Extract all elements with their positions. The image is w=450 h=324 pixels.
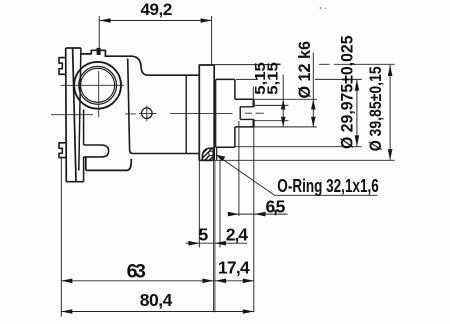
svg-text:63: 63 — [127, 261, 146, 283]
ext 49,2 left / port centerline upper — [98, 16, 100, 52]
dim line 63 and 17,4 — [61, 280, 254, 282]
ext left flange (63 / 80,4) — [60, 158, 62, 317]
svg-text:O-Ring 32,1x1,6: O-Ring 32,1x1,6 — [277, 176, 379, 196]
ext cover left face down — [198, 160, 200, 247]
dim line dia 39,85 — [389, 65, 391, 160]
bottom port stub (clip) — [59, 143, 66, 158]
port vertical crosshair — [98, 71, 100, 117]
body left face edge — [83, 110, 85, 182]
bearing hub — [216, 79, 235, 147]
top port stub (clip) — [59, 58, 66, 75]
casting slot (left cavity) — [84, 145, 109, 157]
end cover disc — [199, 65, 214, 160]
svg-text:5,15: 5,15 — [265, 62, 282, 95]
shaft — [235, 99, 254, 127]
dim line dia 29,975 — [356, 80, 358, 147]
svg-text:6,5: 6,5 — [266, 196, 286, 216]
arrows 63 — [61, 279, 72, 284]
svg-text:Ø 29,975±0,025: Ø 29,975±0,025 — [338, 36, 356, 150]
cam screw tab and body top profile — [81, 50, 199, 75]
ext keyway left end down (6,5) — [238, 121, 240, 216]
arrows 49,2 — [100, 18, 111, 23]
centerlines — [51, 71, 264, 121]
hub joint line — [215, 79, 217, 147]
dim line 49,2 — [100, 20, 212, 22]
dim line 80,4 — [61, 311, 254, 313]
arrows dia 12 — [311, 100, 316, 110]
svg-text:5: 5 — [199, 224, 209, 244]
ext shaft top (dia 12) — [254, 98, 317, 100]
cam screw slot (filled) — [97, 48, 101, 55]
body bottom edge — [86, 157, 132, 171]
main axis centerline — [51, 113, 264, 115]
arrows 80,4 — [61, 309, 72, 314]
body/cover joint line — [185, 75, 187, 154]
dim line dia 12 — [312, 53, 314, 128]
shaft keyway slot — [240, 107, 253, 120]
port circle middle ring — [79, 66, 117, 104]
ext cover right face down (pair) — [214, 160, 215, 312]
shaft end face — [253, 99, 255, 127]
ext cover bottom (dia 39,85) — [214, 159, 394, 161]
ext keyway bottom — [254, 120, 289, 122]
port circle inner ring — [81, 68, 115, 102]
port circle outer ring — [74, 62, 121, 109]
ext hub bottom (dia 29,975) — [235, 146, 362, 148]
arrows 17,4 — [215, 279, 226, 284]
dimension lines — [61, 21, 390, 312]
dim line 5 and 2,4 — [186, 242, 248, 244]
svg-text:17,4: 17,4 — [218, 258, 250, 278]
ext hub top (dia 29,975) — [236, 78, 362, 80]
leader line o-ring — [216, 155, 378, 196]
ext o-ring groove down — [219, 160, 221, 247]
arrows 5,15 dim — [281, 100, 286, 110]
arrow o-ring leader — [216, 155, 226, 162]
arrows 5 / 2,4 — [188, 241, 199, 246]
extension lines — [61, 16, 394, 317]
ext cover top (dia 39,85) — [214, 63, 394, 66]
o-ring groove edge — [216, 147, 218, 160]
O-ring section hatch wedge — [194, 144, 227, 170]
dim line 6,5 — [228, 213, 288, 215]
small hole circle — [142, 108, 153, 119]
svg-text:80,4: 80,4 — [140, 290, 173, 310]
ext 49,2 right — [211, 16, 213, 65]
arrowheads — [61, 18, 392, 314]
small hole vertical crosshair — [146, 106, 148, 122]
svg-text:49,2: 49,2 — [141, 0, 173, 19]
port horizontal crosshair — [61, 84, 124, 86]
dimension texts — [127, 0, 386, 310]
arrows 6,5 (outside) — [228, 212, 239, 217]
ext shaft end down — [253, 127, 255, 312]
arrows dia 29,975 — [355, 80, 360, 91]
ext keyway top — [254, 104, 289, 106]
arrows dia 39,85 — [388, 65, 393, 76]
body right edge and bearing tube bottom — [128, 59, 200, 154]
svg-text:Ø 12 k6: Ø 12 k6 — [295, 41, 314, 99]
scan speckles — [320, 7, 322, 9]
svg-text:2,4: 2,4 — [226, 224, 248, 244]
ext shaft end face up — [252, 87, 254, 100]
ext shaft bottom (dia 12) — [254, 126, 317, 128]
O-ring cross-section hole — [209, 151, 213, 155]
dim line 5,15 pair — [282, 75, 284, 128]
flange inner vertical edge — [79, 48, 81, 171]
svg-text:Ø 39,85±0,15: Ø 39,85±0,15 — [367, 66, 385, 151]
mounting flange plate — [66, 48, 84, 182]
